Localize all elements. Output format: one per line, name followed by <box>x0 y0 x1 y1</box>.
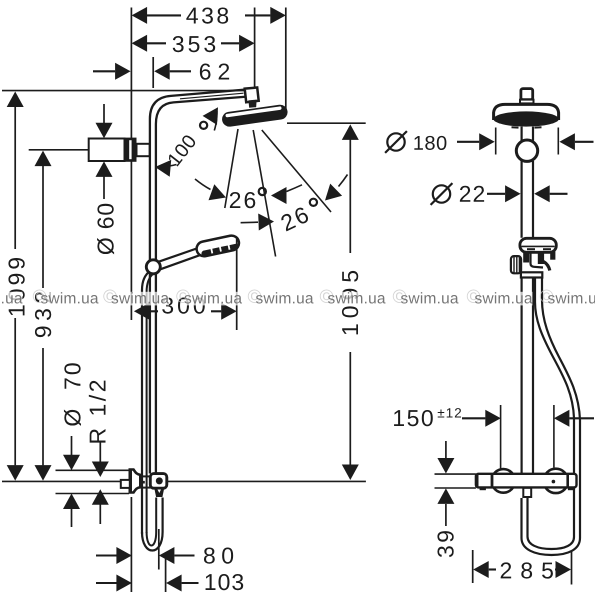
dim O60 <box>103 104 105 124</box>
outlet screw <box>156 477 163 484</box>
dim 300 <box>134 303 150 320</box>
watermark row <box>0 292 23 306</box>
angle 26 left right tail <box>287 185 303 192</box>
angle 100 arc upper <box>214 111 217 131</box>
outlet body <box>140 476 150 487</box>
dim O22 <box>433 185 450 202</box>
dim 103 <box>96 582 117 584</box>
hose side loop outer <box>142 498 163 551</box>
extension line 353 <box>254 8 256 93</box>
wall bracket <box>89 139 125 162</box>
angle 100 lower arrowhead <box>155 160 171 177</box>
spray line A <box>225 129 238 208</box>
dim 39 ref bottom <box>435 487 476 489</box>
extension line 80 <box>158 529 160 570</box>
dim O70 <box>71 436 73 456</box>
extension lines 150 <box>500 405 502 471</box>
hose front inner <box>528 278 575 550</box>
dim 1095 <box>342 124 359 139</box>
thermostat right valve <box>544 469 568 493</box>
angle 26 left text <box>230 192 255 208</box>
thermostat left cap edge <box>476 474 479 487</box>
shower face <box>493 111 558 126</box>
hose side loop inner <box>147 498 157 546</box>
hose side upper <box>142 271 150 534</box>
angle 26 right tail <box>339 175 348 187</box>
angle 100 text <box>167 133 197 166</box>
spray line C <box>262 130 331 212</box>
extension lines 285 <box>472 550 474 583</box>
holder clamp middle <box>538 252 544 264</box>
wall line lower <box>130 497 132 592</box>
outlet pin R12 <box>121 480 130 488</box>
ball joint front <box>516 140 537 161</box>
thermostat dot <box>552 480 556 484</box>
thermostat foot right <box>568 487 575 490</box>
hand shower handle <box>159 248 200 262</box>
overhead shower side view <box>221 104 288 128</box>
extension line 300 <box>236 238 238 331</box>
dim 39 ref top <box>435 473 476 475</box>
holder clamp right <box>550 252 555 260</box>
dim 438 <box>132 7 148 24</box>
bracket escutcheon <box>125 138 137 162</box>
dim 1099 <box>7 92 24 108</box>
dim R12 <box>99 441 101 462</box>
holder base <box>521 272 542 277</box>
dim 62 <box>93 70 115 72</box>
riser pipe front <box>520 127 522 141</box>
head reference line <box>287 122 366 124</box>
slider knob <box>511 256 521 273</box>
hose connector thermostat <box>523 488 531 497</box>
arm connector <box>245 88 259 103</box>
angle 26 left arrowhead <box>209 184 227 200</box>
dim 285 <box>473 561 489 578</box>
thermostat dividers <box>491 474 494 487</box>
supply reference line <box>2 480 121 482</box>
top connector <box>521 89 533 100</box>
dim O180 <box>387 133 404 150</box>
dim O70 ref lines <box>56 469 130 471</box>
thermostat left valve <box>492 469 516 493</box>
angle 100 arc lower <box>160 165 177 167</box>
overhead shower front dome <box>494 104 559 120</box>
arm highlight line <box>180 93 244 99</box>
dim 80 <box>96 554 117 556</box>
dim 353 <box>132 35 148 52</box>
extension line 103 <box>165 553 167 592</box>
angle 26 right text <box>280 206 310 231</box>
hand shower front head <box>520 238 556 252</box>
angle 26 right right arrowhead <box>325 184 342 201</box>
angle 100 upper arrowhead <box>203 107 218 125</box>
bracket pin <box>137 144 150 156</box>
angle 26 left tail <box>195 179 211 190</box>
holder clamp left <box>523 252 529 263</box>
dim 932 <box>35 151 52 167</box>
holder arm <box>544 262 550 271</box>
shower pipe and arm inner edge <box>156 97 247 474</box>
outlet block <box>150 474 167 489</box>
slider holder <box>146 260 160 274</box>
hand shower grip front <box>531 253 544 268</box>
ball joint <box>248 100 256 108</box>
extension lines O180 <box>495 128 497 155</box>
extension line 62 pipe centre <box>152 57 154 88</box>
angle 26 right leader <box>241 221 258 224</box>
connector collar <box>520 100 534 104</box>
top reference line <box>2 90 255 92</box>
thermostat foot left <box>480 487 486 490</box>
hose front outer <box>522 278 581 556</box>
wall extension line <box>130 8 132 321</box>
angle 26 right left arrowhead <box>258 214 274 231</box>
thermostat bar <box>476 474 577 488</box>
wall outlet cone <box>130 470 141 493</box>
dim 150 pm12 <box>394 410 433 426</box>
shower pipe and arm outer edge <box>150 89 248 473</box>
reference line 932 bracket centre <box>29 149 127 151</box>
extension line 438 <box>285 8 287 115</box>
outlet hose connector <box>154 488 164 497</box>
angle 26 left right arrowhead <box>271 187 287 204</box>
dim 39 <box>445 441 447 458</box>
spray line B <box>253 130 275 257</box>
hand shower head side <box>195 234 240 258</box>
